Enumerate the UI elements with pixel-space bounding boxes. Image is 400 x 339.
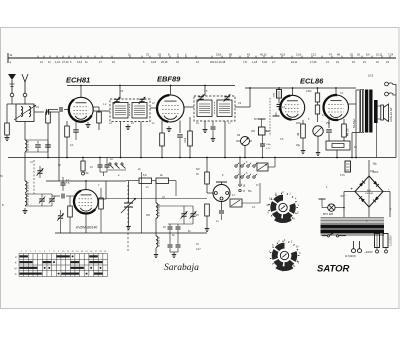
rotary switch wafer S2 rear view <box>277 246 285 250</box>
ferrite coil L2 <box>25 140 27 151</box>
wire P3 out <box>242 202 260 204</box>
feedback box <box>326 141 350 150</box>
IF2 primary winding <box>197 100 212 117</box>
wire oscillator bottom line <box>55 232 207 234</box>
resistor R17 <box>206 158 208 173</box>
wire oscillator cathode <box>85 214 87 234</box>
pickup jack J4 <box>385 92 389 96</box>
wire coilbox down <box>24 122 26 141</box>
grid capacitor C8 <box>59 107 61 112</box>
svg-text:17,20: 17,20 <box>310 60 317 64</box>
triode grid resistor R11 <box>302 120 304 124</box>
svg-text:5,20: 5,20 <box>262 60 268 64</box>
dial scale left end bracket <box>7 53 9 63</box>
wire speaker return <box>376 123 378 158</box>
IF1 primary winding <box>113 103 128 119</box>
wire main AVC bus <box>8 157 396 159</box>
volume potentiometer P1 <box>257 163 268 171</box>
svg-text:SATOR: SATOR <box>317 264 350 275</box>
dial scale main line <box>8 57 396 59</box>
screen resistor R4 <box>93 106 99 108</box>
wire EBF89 output to IF2 <box>184 106 194 108</box>
svg-text:27,10: 27,10 <box>62 60 69 64</box>
power transformer T4 secondary line <box>321 234 385 236</box>
wire gang top <box>128 195 130 203</box>
svg-text:Sarabaja: Sarabaja <box>164 263 199 273</box>
capacitor C2 <box>35 144 41 146</box>
svg-text:5M: 5M <box>248 190 251 193</box>
capacitor C24 <box>105 164 110 166</box>
wire osc coil connections <box>155 196 157 203</box>
switch contact 18 <box>239 184 241 186</box>
wire between resistors <box>152 180 157 182</box>
pickup DIN socket J5 <box>213 185 230 202</box>
ground EBF89 <box>168 126 170 129</box>
svg-text:0,47: 0,47 <box>196 248 201 251</box>
capacitor C7 <box>61 182 66 184</box>
tube ECL86 triode V3a <box>280 95 304 119</box>
svg-text:4,15: 4,15 <box>280 53 286 57</box>
svg-text:EBF89: EBF89 <box>157 75 181 84</box>
dial scale tick marks <box>38 56 390 59</box>
tone capacitor C21 <box>219 210 224 212</box>
volume potentiometer P4 <box>241 137 250 146</box>
bridge rectifier B1 <box>355 176 383 207</box>
capacitor C27 <box>176 244 181 246</box>
svg-text:10,11: 10,11 <box>376 53 383 57</box>
tube ECL86 pentode V3b <box>324 95 349 120</box>
svg-text:7,24: 7,24 <box>388 53 394 57</box>
svg-text:23,8: 23,8 <box>216 53 222 57</box>
fuse F1 <box>375 234 380 248</box>
volume shaft dashed link <box>269 98 271 136</box>
tone pot P2 <box>313 126 323 136</box>
tone potentiometer P3 <box>230 199 242 207</box>
coupling network resistor R9 <box>315 93 319 102</box>
grid resistor R7 470k <box>277 90 282 99</box>
oscillator coil L6 <box>156 236 158 247</box>
wire oscillator anode <box>98 198 106 200</box>
coupling capacitor C13 <box>277 103 282 105</box>
pickup jack J3 <box>385 82 389 86</box>
oscillator coil L5 <box>156 203 158 218</box>
IF2 core dashes <box>214 102 216 115</box>
dipole terminal J2 <box>23 93 27 97</box>
svg-text:4,18: 4,18 <box>151 60 157 64</box>
wire IF2 bottom leads <box>204 121 206 127</box>
wire detector diagonal <box>235 106 250 108</box>
ground tuning gang <box>128 224 130 227</box>
svg-text:24,11: 24,11 <box>291 60 298 64</box>
wire EBF89 grid input <box>150 107 157 109</box>
wire C23 C24 join <box>100 171 107 173</box>
antenna terminal J1 <box>10 93 14 97</box>
wire triode anode up <box>292 88 294 95</box>
oscillator trimmer C18 <box>190 213 195 215</box>
oscillator grid resistor R14 <box>68 206 73 217</box>
switch contact 17 <box>239 189 241 191</box>
wire oscillator grid line <box>46 180 126 182</box>
wire top rail right section <box>245 87 356 89</box>
band switch contact dashes <box>110 165 114 169</box>
svg-text:50+50µF: 50+50µF <box>353 118 356 128</box>
wire right edge <box>395 84 397 158</box>
tube ECH81 heptode V1 <box>69 97 93 121</box>
wire ECH81 grid1 left <box>64 109 69 111</box>
ground IF2 <box>204 127 206 130</box>
mains plug X1 <box>353 241 355 249</box>
resistor R1 <box>6 122 8 124</box>
svg-text:25µ: 25µ <box>296 144 301 147</box>
ground IF1 <box>127 124 129 127</box>
svg-text:7,8: 7,8 <box>243 60 247 64</box>
svg-text:25µ: 25µ <box>326 122 331 125</box>
wire input to band switch <box>58 112 60 181</box>
wire B+ from bridge <box>368 160 370 176</box>
ground C26 C27 <box>170 251 178 253</box>
svg-text:45,10: 45,10 <box>260 53 267 57</box>
switch contacts row 2 <box>235 176 237 178</box>
wire pentode grid top <box>335 88 337 95</box>
wire left column <box>24 152 26 181</box>
ground R11 <box>302 148 304 151</box>
svg-text:6V: 6V <box>341 195 344 198</box>
detector capacitor C11 <box>211 126 216 128</box>
svg-text:500: 500 <box>146 214 151 217</box>
IF1 secondary winding <box>132 103 147 119</box>
output transformer T3 primary outline <box>360 90 362 132</box>
wire transformer bottom lead <box>352 132 360 134</box>
IF2 secondary winding <box>217 100 232 117</box>
wire trimmer links <box>156 205 193 207</box>
svg-text:1,18: 1,18 <box>252 60 258 64</box>
B+ dropper resistor R22 <box>345 161 351 172</box>
screen bypass capacitor C10 <box>179 121 181 134</box>
IF1 core dashes <box>129 104 131 117</box>
tube ECH81 triode oscillator V1b <box>74 190 98 214</box>
tuning gang dashed shaft <box>127 185 129 251</box>
svg-text:4M 100: 4M 100 <box>348 128 350 136</box>
grid resistor R2 <box>47 110 49 113</box>
wire top rail left section <box>67 85 235 87</box>
dial lamp LP1 <box>328 204 335 211</box>
wire EBF89 anode to rail <box>170 86 172 96</box>
svg-text:0,1: 0,1 <box>70 144 74 147</box>
wire switch row <box>108 169 126 171</box>
resistor R16 horizontal <box>156 178 169 184</box>
pentode cathode capacitor C14 <box>328 120 330 129</box>
trimmer C4 <box>37 170 42 172</box>
svg-text:7,12: 7,12 <box>311 53 317 57</box>
ground tone pot <box>317 150 319 153</box>
chassis terminal lamp <box>319 198 326 200</box>
oscillator coil L4 <box>25 194 27 205</box>
feedback resistor R13 <box>332 144 344 148</box>
resistor R15 horizontal <box>139 178 152 184</box>
wire secondary to speaker <box>378 105 381 107</box>
svg-text:2,7: 2,7 <box>272 60 276 64</box>
wire fuse connections <box>376 248 378 251</box>
oscillator anode resistor R20 <box>99 198 104 209</box>
svg-text:KVDN-3B/140: KVDN-3B/140 <box>76 226 97 230</box>
svg-text:M: M <box>15 268 17 270</box>
switch contacts row 1 <box>235 165 237 167</box>
resistor R19 surge <box>383 234 388 248</box>
capacitor C20 <box>176 226 181 228</box>
chassis terminal detector <box>273 115 280 117</box>
oscillator coil L3 <box>25 181 27 192</box>
svg-text:203,12,16,48: 203,12,16,48 <box>210 60 226 64</box>
svg-text:+: + <box>351 187 353 191</box>
svg-text:GÖRLER 3W: GÖRLER 3W <box>390 107 393 122</box>
svg-text:MTX 22B: MTX 22B <box>323 213 333 216</box>
svg-text:13,4: 13,4 <box>77 60 83 64</box>
ground osc coil <box>155 252 157 255</box>
padder capacitor C6 <box>49 198 55 200</box>
wire coil top link <box>25 139 48 141</box>
power transformer T4 primary winding <box>321 217 385 219</box>
ground R18 <box>206 226 208 229</box>
wire B+ filter rail <box>355 104 357 158</box>
IF transformer T1 shield (dashed) <box>110 99 150 122</box>
wire socket bottom <box>221 202 223 211</box>
wire feedback connections <box>328 140 330 141</box>
capacitor C23 <box>98 164 103 166</box>
svg-text:100k: 100k <box>185 137 187 143</box>
tube EBF89 V2 <box>157 95 184 122</box>
svg-text:G: G <box>15 274 17 276</box>
resistor R21 with terminal <box>81 161 85 171</box>
detector resistor R23 <box>259 127 266 135</box>
dipole antenna A2 <box>22 74 25 82</box>
svg-text:1,10: 1,10 <box>55 60 61 64</box>
mains switch S3 <box>327 235 329 237</box>
padder capacitor C5 <box>39 198 45 200</box>
EBF89 cathode resistor R5 <box>161 121 163 134</box>
oscillator left trimmer C25 <box>58 215 63 217</box>
cathode resistor R3 <box>65 126 70 137</box>
pentode cathode resistor R12 <box>343 119 345 124</box>
svg-text:~220V: ~220V <box>364 250 373 254</box>
capacitor C19 <box>168 226 173 228</box>
svg-text:220: 220 <box>370 170 375 173</box>
svg-text:11: 11 <box>10 53 13 57</box>
screen resistor R6 <box>189 117 191 131</box>
svg-text:C300/85: C300/85 <box>365 193 374 195</box>
ground for R1 <box>6 135 8 138</box>
chart closure bars <box>19 255 28 257</box>
wire P1 to bus <box>268 166 275 168</box>
wire lamp to bridge <box>335 207 344 209</box>
svg-text:PAD: PAD <box>296 122 301 125</box>
svg-text:117(220)V: 117(220)V <box>345 255 356 258</box>
wire oscillator anode rail <box>106 198 207 200</box>
wire IF1 input <box>93 110 110 112</box>
svg-text:6,8k: 6,8k <box>84 172 89 175</box>
ground left column <box>24 208 26 211</box>
svg-text:20,15: 20,15 <box>161 60 168 64</box>
svg-text:6,3V: 6,3V <box>340 174 345 177</box>
wire bridge to transformer <box>368 207 370 217</box>
output transformer T3 core <box>365 90 368 133</box>
coupling network resistor R10 <box>315 105 319 114</box>
output transformer extra core bar <box>374 100 378 123</box>
svg-text:10,9: 10,9 <box>368 74 374 78</box>
oscillator grid capacitor C15 <box>61 194 63 199</box>
switch position chart grid <box>19 254 108 277</box>
wire ECH81 anode to top rail <box>80 86 82 98</box>
antenna A1 <box>8 74 16 80</box>
wire switch vertical mid <box>141 172 143 233</box>
svg-text:0,1A 250V: 0,1A 250V <box>390 235 393 246</box>
svg-text:1M: 1M <box>298 133 300 136</box>
coupling capacitor C1 <box>45 109 47 115</box>
wire pentode anode to output transformer <box>349 103 357 105</box>
speaker LS1 voice coil <box>381 105 384 120</box>
wire IF2 top feed <box>204 86 206 97</box>
power transformer T4 core <box>321 225 385 229</box>
svg-text:0,5M: 0,5M <box>306 90 311 93</box>
svg-text:100n: 100n <box>266 144 272 146</box>
band switch dashed link <box>33 160 35 194</box>
wire socket left <box>206 184 208 193</box>
svg-text:21,8: 21,8 <box>296 53 302 57</box>
capacitor C3 <box>45 144 51 146</box>
cathode capacitor C9 <box>73 129 79 131</box>
wire IF1 bottom leads <box>120 122 122 158</box>
svg-text:8,9: 8,9 <box>366 53 370 57</box>
svg-text:6,8: 6,8 <box>143 174 147 177</box>
switch wire vertical <box>239 158 241 184</box>
wire lower coil links <box>25 193 52 195</box>
svg-text:1M: 1M <box>237 135 240 137</box>
svg-text:ECL86: ECL86 <box>300 77 324 86</box>
svg-text:9U: 9U <box>196 173 199 176</box>
svg-text:ECH81: ECH81 <box>66 76 90 85</box>
ground ECH81 cathode <box>87 122 89 125</box>
svg-text:30µ: 30µ <box>373 163 378 166</box>
capacitor C26 <box>168 244 173 246</box>
wire IF1 top feed <box>119 86 121 100</box>
variable capacitor C16 (tuning gang) <box>124 202 133 204</box>
resistor R18 <box>206 193 208 204</box>
speaker LS1 cone <box>383 104 388 122</box>
rotary switch wafer S1 rear view <box>275 198 283 202</box>
detector capacitor C28 <box>260 143 265 145</box>
input coil L1 <box>16 104 34 122</box>
oscillator trimmer C17 <box>181 213 186 215</box>
IF transformer T2 shield (dashed) <box>194 96 235 121</box>
wire oscillator top grid <box>85 181 87 190</box>
